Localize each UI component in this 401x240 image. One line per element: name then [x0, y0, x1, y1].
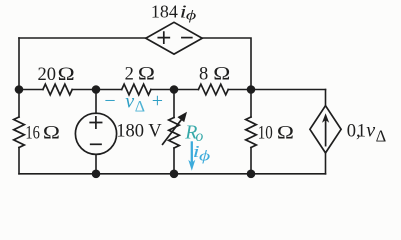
- wire left vertical top: [18, 38, 20, 117]
- plus sign in source: [90, 117, 101, 128]
- svg-text:10: 10: [258, 123, 273, 143]
- svg-text:ϕ: ϕ: [186, 7, 196, 22]
- svg-text:16: 16: [25, 124, 40, 144]
- node bottom of 10 ohm: [247, 170, 256, 179]
- arrow shaft in current source: [325, 121, 327, 146]
- arrowhead of variable resistor Ro: [177, 112, 187, 122]
- resistor 16 ohm: [14, 117, 25, 147]
- wire right branch: [325, 90, 327, 174]
- svg-text:−: −: [104, 90, 115, 112]
- resistor Ro variable: [169, 118, 180, 148]
- minus sign in diamond: [182, 37, 192, 39]
- wire middle rail segments: [19, 89, 326, 91]
- resistor 10 ohm: [246, 117, 257, 147]
- dependent voltage source diamond 184 iphi: [146, 22, 202, 54]
- minus sign in source: [91, 143, 101, 145]
- current arrow iphi: [191, 141, 193, 162]
- svg-text:Ω: Ω: [213, 63, 230, 84]
- svg-text:ϕ: ϕ: [199, 148, 211, 165]
- node top of 10 ohm: [247, 85, 256, 94]
- node top of source: [92, 85, 101, 94]
- node dots: [15, 85, 256, 178]
- resistor 20 ohm: [43, 84, 72, 95]
- resistor 2 ohm: [122, 84, 151, 95]
- svg-text:Δ: Δ: [376, 127, 387, 146]
- arrowhead in current source: [322, 113, 329, 123]
- svg-text:180 V: 180 V: [116, 122, 162, 142]
- node top-left: [15, 85, 24, 94]
- wire Ro branch: [173, 90, 175, 174]
- svg-text:+: +: [152, 90, 163, 112]
- wire top rail right and drop to node D: [202, 38, 251, 90]
- voltage source 180V circle: [75, 113, 116, 154]
- svg-text:1: 1: [357, 122, 366, 142]
- node bottom of Ro: [170, 170, 179, 179]
- resistor 8 ohm: [198, 84, 228, 95]
- svg-text:Ω: Ω: [277, 122, 294, 143]
- wire left vertical bottom: [18, 148, 20, 174]
- wire source branch: [95, 90, 97, 174]
- svg-text:Δ: Δ: [135, 99, 145, 116]
- svg-text:Ω: Ω: [43, 122, 60, 143]
- node bottom of source: [92, 170, 101, 179]
- arrow shaft of variable resistor Ro: [163, 120, 182, 145]
- svg-text:8: 8: [199, 65, 208, 85]
- svg-text:v: v: [125, 90, 134, 112]
- svg-text:Ω: Ω: [138, 63, 155, 84]
- wire top rail left: [19, 37, 146, 39]
- svg-text:Ω: Ω: [58, 63, 75, 84]
- svg-text:2: 2: [125, 65, 134, 85]
- node top of Ro: [170, 85, 179, 94]
- svg-text:v: v: [366, 120, 375, 142]
- plus sign in diamond: [158, 32, 169, 43]
- dependent current source diamond 0,1vdelta: [310, 106, 341, 153]
- svg-text:184: 184: [151, 2, 178, 22]
- wire bottom rail: [19, 173, 326, 175]
- svg-text:20: 20: [38, 65, 57, 85]
- wire 10 ohm branch: [250, 90, 252, 174]
